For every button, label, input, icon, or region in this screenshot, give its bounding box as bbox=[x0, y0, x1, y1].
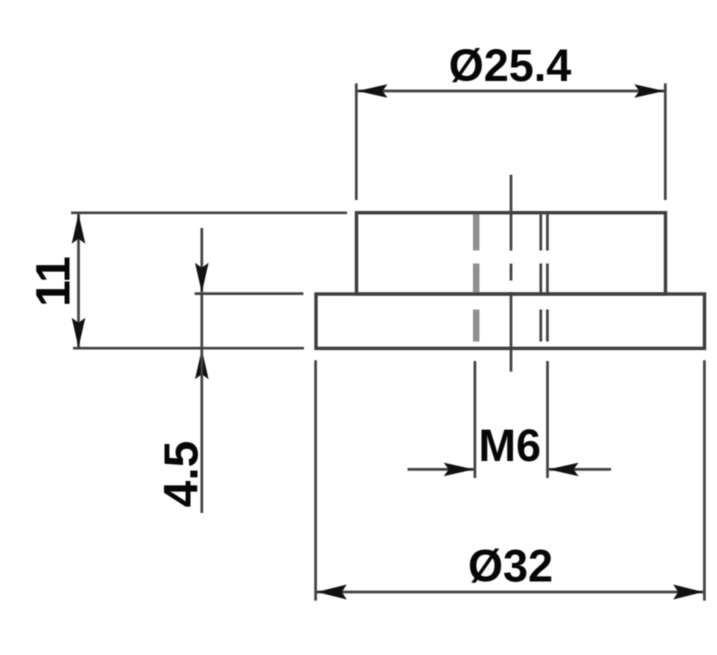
dimension M6: left leader line bbox=[408, 468, 474, 471]
vertical centerline (dash-dot) bbox=[510, 175, 513, 372]
dimension Ø25.4: right arrowhead bbox=[634, 84, 664, 98]
dimension 11: bottom extension line (shared with 4.5) bbox=[73, 347, 304, 350]
hidden thread line left (thick gray dashed) bbox=[473, 215, 480, 342]
part body (upper boss rectangle, section view) bbox=[357, 213, 666, 294]
dimension 11: top extension line bbox=[71, 211, 347, 214]
dimension Ø32: dimension line bbox=[317, 591, 704, 594]
svg-text:Ø32: Ø32 bbox=[468, 541, 553, 592]
dimension M6: right extension line bbox=[546, 361, 549, 478]
part flange (lower rectangle, section view) bbox=[316, 294, 705, 348]
dimension 4.5: top extension line (flange top) bbox=[195, 292, 304, 295]
hidden thread lines right (dashed pair) bbox=[541, 215, 548, 342]
dimension Ø32: right arrowhead bbox=[673, 585, 703, 600]
dimension Ø32: right extension line bbox=[703, 360, 706, 600]
svg-text:Ø25.4: Ø25.4 bbox=[449, 40, 572, 91]
svg-text:4.5: 4.5 bbox=[156, 441, 209, 508]
dimension M6: left extension line bbox=[474, 361, 477, 478]
dimension Ø32: left arrowhead bbox=[317, 585, 347, 600]
dimension Ø25.4: dimension line bbox=[358, 90, 665, 93]
dimension 11: bottom arrowhead bbox=[72, 318, 86, 348]
dimension M6: left-pointing arrowhead bbox=[549, 463, 579, 477]
dimension 4.5: upper leader shaft bbox=[200, 228, 203, 292]
dimension M6: right leader line bbox=[549, 468, 611, 471]
dimension M6: right-pointing arrowhead bbox=[444, 463, 474, 477]
dimension 11: top arrowhead bbox=[72, 214, 86, 244]
dimension Ø25.4: left arrowhead bbox=[358, 84, 388, 98]
dimension 4.5: up arrowhead bbox=[195, 349, 209, 379]
dimension Ø32: left extension line bbox=[314, 360, 317, 600]
dimension Ø25.4: left extension line bbox=[355, 83, 358, 200]
svg-text:M6: M6 bbox=[479, 420, 542, 471]
dimension 11: dimension line bbox=[77, 214, 80, 347]
dimension 4.5: down arrowhead bbox=[195, 263, 209, 293]
dimension Ø25.4: right extension line bbox=[664, 83, 667, 200]
dimension 4.5: lower leader shaft bbox=[200, 349, 203, 513]
svg-text:11: 11 bbox=[28, 256, 81, 307]
dimension 4.5: crossing segment between faces bbox=[200, 294, 203, 348]
